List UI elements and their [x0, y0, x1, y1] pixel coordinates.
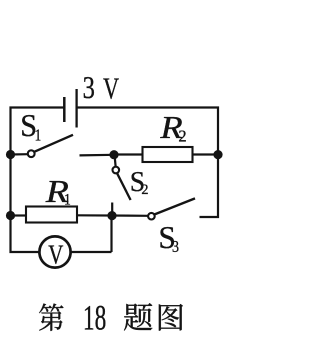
- node A junction dot: [6, 150, 15, 159]
- switch S1 pivot circle: [28, 150, 35, 157]
- caption character 题: [124, 303, 152, 330]
- caption character 第: [39, 304, 63, 331]
- wire node E down to voltmeter right lead: [110, 216, 112, 253]
- caption character 图: [159, 304, 183, 331]
- node E junction dot: [107, 211, 116, 220]
- wire resistor R2 to node C: [193, 153, 219, 155]
- node D junction dot: [6, 211, 15, 220]
- resistor label R2: [159, 110, 186, 145]
- voltmeter body circle: [39, 236, 70, 267]
- svg-text:1: 1: [35, 127, 42, 145]
- svg-text:2: 2: [141, 182, 148, 198]
- battery positive plate (long): [75, 89, 77, 128]
- switch S3 blade: [155, 198, 195, 214]
- svg-text:3: 3: [172, 238, 179, 256]
- switch S1 blade: [34, 135, 73, 152]
- svg-text:2: 2: [178, 126, 186, 145]
- wire node A to switch S1 pivot: [11, 153, 29, 156]
- switch S3 pivot circle: [148, 213, 155, 220]
- svg-text:V: V: [48, 240, 63, 270]
- resistor R2 body: [143, 147, 193, 162]
- wire S2 fixed contact stub above node E: [111, 203, 113, 216]
- resistor label R1: [45, 174, 71, 210]
- node B junction dot: [109, 150, 118, 159]
- switch S2 blade: [117, 173, 131, 200]
- wire resistor R1 to node E and on to switch S3 pivot: [77, 214, 148, 217]
- wire top-left: battery negative to left rail down to voltmeter: [11, 108, 65, 253]
- switch S2 pivot circle: [113, 167, 120, 174]
- svg-text:V: V: [103, 71, 120, 105]
- node C junction dot: [213, 150, 222, 159]
- svg-text:1: 1: [64, 191, 71, 208]
- battery negative plate (short): [63, 97, 66, 122]
- switch label S2: [130, 167, 149, 198]
- switch label S1: [20, 108, 41, 145]
- resistor R1 body: [26, 207, 77, 223]
- wire top-right: battery positive to right rail down to S3 fixed contact: [77, 108, 219, 218]
- svg-text:3: 3: [83, 71, 95, 106]
- wire node D to resistor R1: [11, 214, 27, 216]
- wire node B to resistor R2: [114, 153, 143, 155]
- svg-text:18: 18: [83, 298, 106, 338]
- switch label S3: [158, 220, 179, 256]
- switch S2 stub from node B: [115, 155, 116, 167]
- wire voltmeter right lead: [71, 251, 112, 253]
- battery value label 3 V: [83, 71, 120, 106]
- wire S1 fixed contact to node B: [80, 154, 115, 157]
